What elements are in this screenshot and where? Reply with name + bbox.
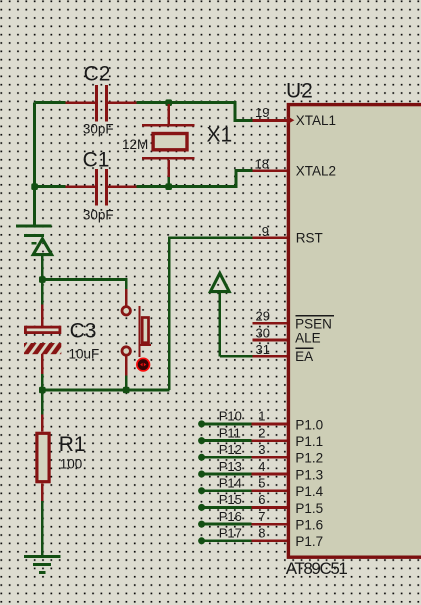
capacitor C2 plates [66, 85, 137, 122]
ground terminal top (caps) [16, 226, 51, 243]
svg-text:C3: C3 [70, 320, 97, 343]
svg-text:4: 4 [258, 459, 265, 474]
pin numbers 1-8 [258, 409, 265, 541]
net labels P10-P17 [219, 409, 242, 541]
svg-text:9: 9 [262, 224, 269, 239]
wire reset rail to C3 [41, 280, 44, 305]
junction crystal bottom [165, 183, 172, 190]
svg-text:5: 5 [258, 476, 265, 491]
svg-text:18: 18 [255, 157, 269, 172]
wires P1.0-P1.7 with terminal dots [198, 420, 252, 544]
resistor R1 value label 100 [60, 456, 83, 471]
crystal X1 reference label [207, 123, 233, 146]
capacitor C2 value label 30pF [83, 121, 114, 136]
pin 29 PSEN stub [253, 322, 287, 325]
svg-text:P1.7: P1.7 [295, 534, 323, 549]
wire left rail caps to ground [33, 103, 36, 225]
pins 1-8 P1.0-P1.7 stubs [251, 424, 287, 541]
wire RST from chip to bottom row [169, 238, 252, 390]
capacitor C1 reference label [83, 148, 110, 171]
svg-text:RST: RST [296, 231, 323, 246]
svg-text:7: 7 [258, 509, 265, 524]
pin 31 number label [256, 342, 270, 357]
svg-text:10uF: 10uF [69, 347, 100, 362]
pin name XTAL1 [296, 113, 336, 128]
pin 19 XTAL1 stub [252, 119, 287, 122]
svg-text:19: 19 [255, 105, 269, 120]
svg-text:U2: U2 [286, 79, 313, 102]
junction reset rail top [39, 276, 46, 283]
svg-text:P1.3: P1.3 [295, 467, 323, 482]
svg-text:P16: P16 [219, 509, 242, 524]
pin name EA with overline [295, 348, 313, 364]
svg-text:X1: X1 [207, 123, 233, 146]
wire reset top row to button [42, 280, 126, 289]
power terminal arrow (EA pin 31) [210, 273, 229, 356]
power terminal arrow (reset rail) [33, 239, 51, 280]
svg-text:2: 2 [258, 425, 265, 440]
pin names P1.0-P1.7 [295, 417, 323, 549]
chip U2 value label AT89C51 [286, 559, 348, 578]
push button SW [122, 289, 151, 390]
junction R1 top [39, 387, 46, 394]
svg-text:P1.6: P1.6 [295, 518, 323, 533]
svg-text:30pF: 30pF [83, 207, 114, 222]
push button red actuator indicator [137, 358, 150, 371]
pin name XTAL2 [296, 163, 336, 178]
wire top row C2 to corner and pin 19 [35, 103, 253, 121]
svg-text:P13: P13 [219, 459, 242, 474]
svg-text:C1: C1 [83, 148, 110, 171]
svg-text:P14: P14 [219, 476, 242, 491]
svg-text:6: 6 [258, 492, 265, 507]
pin name ALE [295, 331, 321, 346]
pin name PSEN with overline [295, 316, 334, 332]
capacitor C3 electrolytic [24, 304, 61, 390]
pin 30 ALE stub [253, 339, 287, 342]
wire bottom reset row [42, 389, 169, 392]
capacitor C3 value label 10uF [69, 347, 100, 362]
junction crystal top [165, 99, 172, 106]
resistor R1 reference label [59, 433, 86, 456]
svg-text:AT89C51: AT89C51 [286, 559, 348, 578]
svg-text:P1.2: P1.2 [295, 451, 323, 466]
chip U2 reference label [286, 79, 313, 102]
wire C1 row to corner and pin 18 [35, 171, 253, 187]
svg-text:30: 30 [256, 325, 270, 340]
svg-text:3: 3 [258, 442, 265, 457]
svg-text:1: 1 [258, 409, 265, 424]
pin name RST [296, 231, 323, 246]
pin 31 EA stub [252, 355, 287, 358]
crystal X1 body [142, 104, 195, 187]
svg-text:P1.4: P1.4 [295, 484, 323, 499]
pin XTAL1 clock arrowhead [287, 116, 295, 124]
svg-text:C2: C2 [84, 63, 111, 86]
svg-text:8: 8 [258, 526, 265, 541]
wire EA arrow to pin 31 [220, 355, 253, 358]
svg-text:12M: 12M [122, 137, 148, 152]
pin 18 number label [255, 157, 269, 172]
svg-text:P1.1: P1.1 [295, 434, 323, 449]
svg-text:30pF: 30pF [83, 121, 114, 136]
capacitor C1 plates [66, 169, 137, 206]
svg-text:P1.5: P1.5 [295, 501, 323, 516]
svg-text:XTAL2: XTAL2 [296, 163, 336, 178]
svg-text:XTAL1: XTAL1 [296, 113, 336, 128]
resistor R1 [37, 390, 49, 555]
svg-text:P12: P12 [219, 442, 242, 457]
svg-text:31: 31 [256, 342, 270, 357]
pin 18 XTAL2 stub [252, 169, 287, 172]
ground terminal bottom (R1) [24, 556, 61, 572]
svg-text:ALE: ALE [295, 331, 321, 346]
pin 9 number label [262, 224, 269, 239]
crystal X1 value label 12M [122, 137, 148, 152]
svg-text:PSEN: PSEN [295, 316, 332, 331]
svg-text:P15: P15 [219, 492, 242, 507]
pin 19 number label [255, 105, 269, 120]
capacitor C2 reference label [84, 63, 111, 86]
svg-text:P17: P17 [219, 526, 242, 541]
svg-text:P10: P10 [219, 409, 242, 424]
svg-text:P1.0: P1.0 [295, 417, 323, 432]
junction C1 left [31, 183, 38, 190]
chip U2 body [288, 105, 421, 558]
pin 29 number label [256, 309, 270, 324]
svg-text:EA: EA [295, 349, 313, 364]
pin 9 RST stub [252, 236, 287, 239]
svg-text:P11: P11 [219, 425, 241, 440]
capacitor C1 value label 30pF [83, 207, 114, 222]
svg-text:R1: R1 [59, 433, 86, 456]
svg-text:100: 100 [60, 456, 83, 471]
capacitor C3 reference label [70, 320, 97, 343]
junction button bottom [123, 387, 130, 394]
pin 30 number label [256, 325, 270, 340]
svg-text:29: 29 [256, 309, 270, 324]
